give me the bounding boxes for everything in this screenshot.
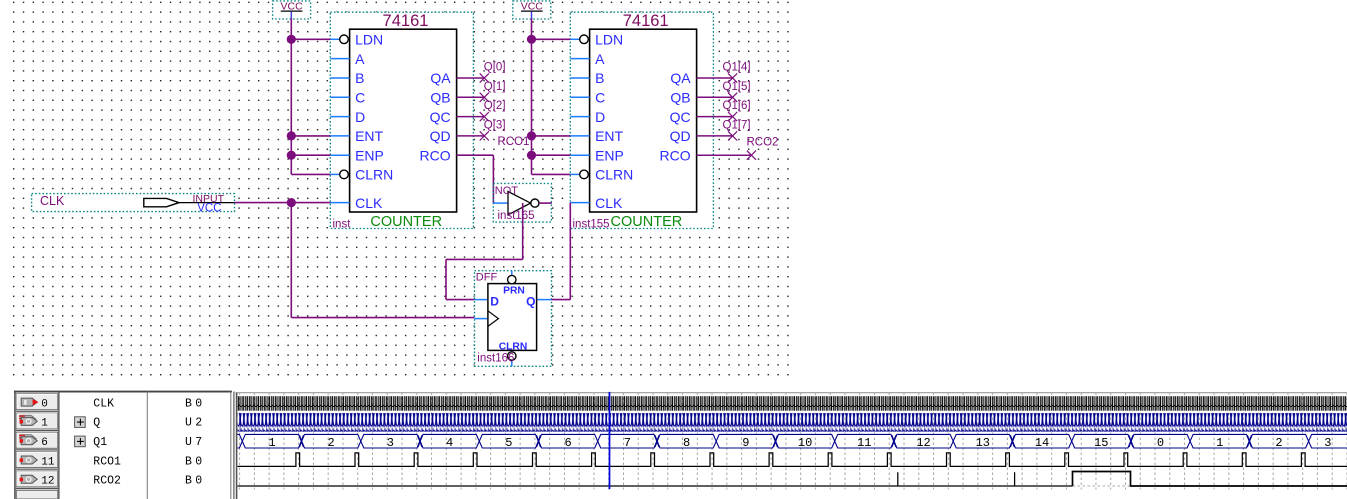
svg-text:CLRN: CLRN — [595, 167, 633, 183]
svg-text:ENT: ENT — [355, 128, 383, 144]
LDN bubble inst155 — [580, 35, 589, 44]
svg-text:CLK: CLK — [355, 195, 383, 211]
svg-text:B: B — [185, 475, 192, 488]
svg-text:RCO1: RCO1 — [498, 136, 530, 148]
junction on VCC rail 1 at ENT — [287, 131, 296, 140]
wire QC counter1 / node Q[2] — [457, 100, 506, 121]
svg-text:2: 2 — [195, 417, 202, 430]
svg-text:RCO1: RCO1 — [93, 455, 121, 468]
svg-text:3: 3 — [1324, 436, 1331, 450]
wire QA counter1 / node Q[0] — [457, 62, 506, 83]
svg-text:14: 14 — [1035, 436, 1049, 450]
svg-text:CLRN: CLRN — [355, 167, 393, 183]
waveform RCO2 trace — [238, 472, 1347, 487]
wire VCC rail 2 — [532, 19, 571, 175]
svg-text:7: 7 — [195, 436, 202, 449]
wire NOT output to DFF D — [446, 203, 523, 300]
wire QA counter2 / node Q1[4] — [697, 62, 751, 83]
svg-text:7: 7 — [624, 436, 631, 450]
input port CLK — [32, 193, 235, 215]
svg-text:Q1[7]: Q1[7] — [723, 120, 751, 132]
svg-text:QA: QA — [430, 70, 451, 86]
svg-text:1: 1 — [41, 418, 48, 430]
pin stubs inst — [330, 39, 349, 202]
svg-text:inst155: inst155 — [573, 219, 610, 231]
LDN bubble inst — [340, 35, 349, 44]
svg-text:B: B — [185, 455, 192, 468]
svg-text:Q[3]: Q[3] — [484, 120, 506, 132]
junction on VCC rail 1 at ENP — [287, 151, 296, 160]
svg-text:Q[2]: Q[2] — [484, 100, 506, 112]
power VCC symbol 1 — [273, 1, 311, 20]
svg-text:PRN: PRN — [503, 286, 525, 297]
svg-text:A: A — [595, 51, 605, 67]
svg-text:15: 15 — [1094, 436, 1108, 450]
svg-text:Q1: Q1 — [93, 436, 107, 449]
wire QD counter2 / node Q1[7] — [697, 120, 751, 141]
svg-text:QC: QC — [670, 109, 691, 125]
svg-text:11: 11 — [857, 436, 871, 450]
svg-text:Q1[6]: Q1[6] — [723, 100, 751, 112]
svg-text:4: 4 — [446, 436, 453, 450]
svg-text:QD: QD — [430, 128, 451, 144]
wire QB counter1 / node Q[1] — [457, 81, 506, 102]
D flip-flop inst166 — [475, 271, 552, 367]
svg-text:B: B — [595, 70, 604, 86]
junction on VCC rail 2 at ENT — [527, 131, 536, 140]
svg-text:U: U — [185, 436, 192, 449]
svg-text:Q1[4]: Q1[4] — [723, 62, 751, 74]
svg-text:CLK: CLK — [595, 195, 623, 211]
svg-text:QA: QA — [670, 70, 691, 86]
CLRN bubble inst — [340, 170, 349, 179]
svg-text:RCO2: RCO2 — [93, 475, 121, 488]
signal table rows — [16, 394, 203, 499]
svg-text:COUNTER: COUNTER — [611, 214, 683, 230]
wire NOT output stub — [539, 202, 552, 204]
svg-text:VCC: VCC — [197, 203, 221, 215]
svg-text:Q[1]: Q[1] — [484, 81, 506, 93]
wire QC counter2 / node Q1[6] — [697, 100, 751, 121]
svg-text:CLK: CLK — [93, 397, 114, 410]
svg-text:ENP: ENP — [595, 147, 624, 163]
junction CLK net — [287, 198, 296, 207]
pin stubs inst155 — [570, 39, 589, 202]
svg-text:RCO2: RCO2 — [747, 136, 779, 148]
svg-text:12: 12 — [41, 476, 54, 488]
wire QB counter2 / node Q1[5] — [697, 81, 751, 102]
junction on VCC rail 2 at LDN — [527, 35, 536, 44]
svg-text:9: 9 — [742, 436, 749, 450]
svg-text:COUNTER: COUNTER — [370, 214, 442, 230]
svg-text:12: 12 — [916, 436, 930, 450]
74161 counter inst155 selection boundary — [570, 12, 713, 228]
svg-text:13: 13 — [976, 436, 990, 450]
svg-text:B: B — [355, 70, 364, 86]
svg-text:QB: QB — [670, 90, 690, 106]
NOT gate inst165 — [493, 183, 551, 222]
svg-text:6: 6 — [565, 436, 572, 450]
waveform grid — [237, 393, 1347, 490]
svg-text:3: 3 — [387, 436, 394, 450]
svg-text:2: 2 — [1275, 436, 1282, 450]
svg-text:CLRN: CLRN — [499, 341, 528, 352]
wire CLK net — [234, 203, 474, 318]
svg-text:ENP: ENP — [355, 147, 384, 163]
wire RCO1 net — [457, 136, 530, 203]
svg-text:Q1[5]: Q1[5] — [723, 81, 751, 93]
svg-text:0: 0 — [195, 455, 202, 468]
svg-text:Q: Q — [93, 417, 100, 430]
svg-text:0: 0 — [41, 398, 48, 410]
svg-text:inst165: inst165 — [498, 210, 535, 222]
74161 counter inst selection boundary — [330, 12, 473, 228]
svg-text:B: B — [185, 397, 192, 410]
svg-text:DFF: DFF — [476, 272, 498, 284]
svg-text:CLK: CLK — [40, 194, 65, 208]
waveform Q bus trace — [238, 413, 1347, 432]
svg-text:RCO: RCO — [419, 147, 450, 163]
svg-text:0: 0 — [1157, 436, 1164, 450]
waveform panel — [14, 391, 1347, 499]
svg-text:U: U — [185, 417, 192, 430]
svg-text:LDN: LDN — [595, 32, 623, 48]
svg-text:Q: Q — [526, 294, 535, 308]
svg-text:74161: 74161 — [383, 12, 429, 30]
svg-text:NOT: NOT — [495, 185, 519, 197]
svg-text:QB: QB — [430, 90, 450, 106]
74161 counter inst body — [333, 12, 457, 231]
power VCC symbol 2 — [513, 1, 551, 20]
svg-text:0: 0 — [195, 475, 202, 488]
svg-text:1: 1 — [1216, 436, 1223, 450]
svg-text:8: 8 — [683, 436, 690, 450]
svg-text:D: D — [595, 109, 605, 125]
wire QD counter1 / node Q[3] — [457, 120, 506, 141]
waveform Q1 bus trace — [237, 434, 1347, 449]
svg-text:QD: QD — [670, 128, 691, 144]
svg-text:6: 6 — [41, 437, 48, 449]
wire VCC rail 1 — [291, 19, 330, 175]
svg-text:ENT: ENT — [595, 128, 623, 144]
svg-text:0: 0 — [195, 397, 202, 410]
svg-text:C: C — [595, 90, 605, 106]
waveform time cursor — [609, 392, 611, 489]
svg-text:RCO: RCO — [659, 147, 690, 163]
svg-text:C: C — [355, 90, 365, 106]
svg-text:2: 2 — [328, 436, 335, 450]
svg-text:A: A — [355, 51, 365, 67]
wire RCO2 net — [697, 136, 779, 159]
svg-text:Q[0]: Q[0] — [484, 62, 506, 74]
junction on VCC rail 2 at ENP — [527, 151, 536, 160]
svg-text:74161: 74161 — [623, 12, 669, 30]
svg-text:LDN: LDN — [355, 32, 383, 48]
svg-text:QC: QC — [430, 109, 451, 125]
waveform RCO1 trace — [238, 453, 1347, 467]
svg-text:11: 11 — [41, 456, 55, 468]
svg-text:inst166: inst166 — [477, 353, 514, 365]
74161 counter inst155 body — [573, 12, 697, 231]
svg-text:5: 5 — [505, 436, 512, 450]
CLRN bubble inst155 — [580, 170, 589, 179]
waveform CLK trace — [238, 396, 1347, 411]
svg-text:D: D — [355, 109, 365, 125]
svg-text:D: D — [490, 294, 499, 308]
svg-text:1: 1 — [268, 436, 275, 450]
junction on VCC rail 1 at LDN — [287, 35, 296, 44]
svg-text:10: 10 — [798, 436, 812, 450]
svg-text:inst: inst — [333, 219, 352, 231]
wire DFF Q to counter2 CLK — [552, 203, 571, 300]
